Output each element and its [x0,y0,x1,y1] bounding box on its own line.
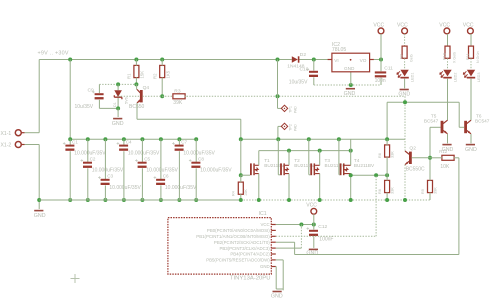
svg-text:PB2(PCINT2/SCK/ADC1/T0): PB2(PCINT2/SCK/ADC1/T0) [214,240,270,245]
svg-text:VCC: VCC [373,23,384,29]
svg-text:VCC: VCC [306,202,317,208]
svg-text:R10: R10 [442,53,446,60]
svg-text:LED3: LED3 [477,73,481,83]
svg-text:R4: R4 [231,191,235,196]
svg-text:R1: R1 [127,73,132,79]
svg-text:X Gelb: X Gelb [452,52,456,63]
svg-text:TP2: TP2 [289,124,293,131]
svg-text:C9: C9 [88,88,95,94]
svg-text:C11: C11 [384,65,393,71]
svg-text:C7: C7 [181,140,187,145]
svg-text:33K: 33K [391,187,395,194]
svg-text:VI: VI [334,58,338,63]
svg-text:10u/35V: 10u/35V [75,104,94,110]
svg-text:10K: 10K [244,189,248,196]
svg-text:GND: GND [260,264,270,269]
svg-text:R11: R11 [466,53,470,60]
svg-text:PAD: PAD [294,124,298,131]
svg-text:5V6: 5V6 [125,97,129,104]
svg-text:C6: C6 [163,174,169,179]
svg-text:78L05: 78L05 [332,47,347,53]
svg-text:C4: C4 [126,140,132,145]
svg-text:10u/35V: 10u/35V [289,80,308,86]
svg-text:VCC: VCC [397,23,408,29]
svg-text:Q2: Q2 [409,146,416,152]
svg-text:TINY13A-20PU: TINY13A-20PU [230,276,271,282]
svg-text:BU211BV: BU211BV [354,163,375,168]
svg-text:C5: C5 [144,157,150,162]
svg-text:N Grün: N Grün [476,51,480,63]
svg-text:Q4: Q4 [143,85,150,91]
svg-text:PB5(PCINT5/RESET/ADC0/DW): PB5(PCINT5/RESET/ADC0/DW) [206,258,270,263]
svg-text:PB4(PCINT4/ADC2): PB4(PCINT4/ADC2) [230,252,270,257]
svg-text:BU211BV: BU211BV [325,163,346,168]
svg-text:GND: GND [344,91,356,97]
svg-text:C2: C2 [90,157,96,162]
svg-text:D2: D2 [300,52,307,58]
svg-text:VO: VO [360,58,367,63]
svg-text:BC547: BC547 [424,118,439,123]
svg-text:R8: R8 [378,189,382,194]
svg-text:39K: 39K [433,187,437,194]
svg-text:33K: 33K [391,151,395,158]
svg-text:PB0(PCINT0/AIN0/OC0A/MOSI): PB0(PCINT0/AIN0/OC0A/MOSI) [207,228,270,233]
svg-text:GND: GND [271,294,283,300]
svg-text:100nF: 100nF [319,237,333,243]
svg-text:VCC: VCC [439,23,450,29]
svg-text:C1: C1 [72,140,78,145]
svg-text:GND: GND [306,251,318,257]
svg-text:GND: GND [344,66,355,71]
svg-text:R7: R7 [399,54,403,59]
svg-text:VCC: VCC [261,222,270,227]
svg-text:R9: R9 [421,189,425,194]
svg-text:X1-2: X1-2 [1,143,12,149]
svg-text:10.000uF/35V: 10.000uF/35V [165,185,197,191]
svg-text:10.000uF/35V: 10.000uF/35V [109,185,141,191]
svg-text:GND: GND [112,121,124,127]
svg-text:IC1: IC1 [259,211,267,217]
svg-text:GND: GND [398,92,410,98]
svg-text:PB1(PCINT1/AIN1/OC0B/INT0/MISO: PB1(PCINT1/AIN1/OC0B/INT0/MISO) [196,234,270,239]
svg-text:1K5: 1K5 [166,70,171,78]
svg-text:X1-1: X1-1 [1,131,12,137]
svg-text:GND: GND [34,213,46,219]
svg-text:10K: 10K [440,164,450,170]
svg-text:BC550C: BC550C [406,166,425,172]
svg-text:VCC: VCC [463,23,474,29]
svg-text:PB3(PCINT3/CLKI/ADC3): PB3(PCINT3/CLKI/ADC3) [219,246,270,251]
svg-text:D1: D1 [113,102,117,107]
svg-text:C8: C8 [198,157,204,162]
svg-text:C10: C10 [300,67,309,73]
svg-text:R12: R12 [439,149,447,154]
svg-text:TP1: TP1 [289,106,293,113]
svg-text:100n: 100n [375,78,386,84]
svg-text:LED1: LED1 [411,73,415,83]
svg-text:15K: 15K [140,71,145,79]
svg-text:C3: C3 [107,174,113,179]
svg-text:BU211BV: BU211BV [264,163,285,168]
svg-text:R3: R3 [174,89,181,95]
svg-text:GND: GND [465,147,477,153]
svg-text:10.000uF/35V: 10.000uF/35V [200,168,232,174]
svg-text:+9V .. +30V: +9V .. +30V [38,50,69,56]
svg-text:PAD: PAD [294,106,298,113]
svg-text:R2: R2 [153,73,158,79]
svg-text:LED2: LED2 [454,73,458,83]
svg-text:BU211BV: BU211BV [294,163,315,168]
svg-text:R6: R6 [378,153,382,158]
svg-text:Gelb: Gelb [410,54,414,62]
svg-text:C12: C12 [318,224,327,230]
svg-text:BC547: BC547 [475,118,490,123]
svg-text:39K: 39K [173,100,183,106]
